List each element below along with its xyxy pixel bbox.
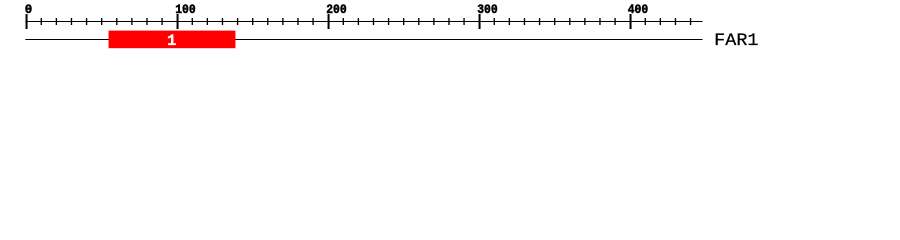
svg-text:FAR1: FAR1: [714, 31, 758, 51]
wire ruler major ticks: [26, 14, 632, 29]
wire ruler minor ticks: [41, 18, 692, 25]
node domain-1 red box: [109, 31, 236, 49]
wire ruler line: [25, 21, 702, 22]
svg-text:300: 300: [477, 2, 498, 17]
svg-text:400: 400: [628, 2, 649, 17]
svg-text:0: 0: [25, 2, 33, 17]
wire protein backbone: [25, 39, 702, 40]
svg-text:200: 200: [326, 2, 347, 17]
svg-text:1: 1: [167, 32, 176, 50]
svg-text:100: 100: [175, 2, 196, 17]
node ruler-labels: [25, 2, 649, 17]
